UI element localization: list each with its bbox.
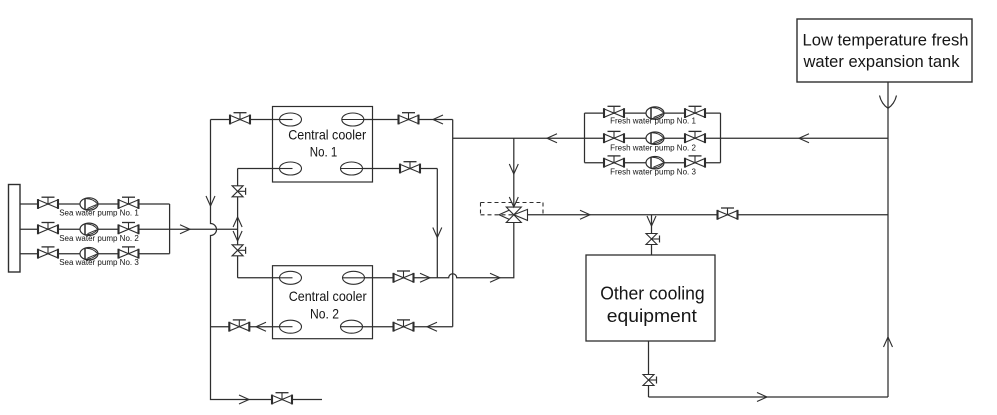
svg-text:Sea water pump No. 1: Sea water pump No. 1 — [59, 209, 139, 218]
svg-text:Low temperature fresh: Low temperature fresh — [803, 31, 969, 49]
svg-text:Fresh water pump No. 3: Fresh water pump No. 3 — [610, 168, 696, 177]
svg-text:Other cooling: Other cooling — [600, 283, 705, 303]
svg-text:Fresh water pump No. 1: Fresh water pump No. 1 — [610, 116, 696, 125]
svg-text:water expansion tank: water expansion tank — [802, 53, 960, 71]
svg-text:Sea water pump No. 2: Sea water pump No. 2 — [59, 234, 139, 243]
svg-text:Fresh water pump No. 2: Fresh water pump No. 2 — [610, 143, 696, 152]
svg-text:No. 2: No. 2 — [310, 305, 339, 321]
svg-text:Sea water pump No. 3: Sea water pump No. 3 — [59, 258, 139, 267]
svg-text:Central cooler: Central cooler — [288, 126, 366, 142]
svg-text:Central cooler: Central cooler — [289, 288, 367, 304]
svg-text:equipment: equipment — [607, 306, 697, 326]
svg-text:No. 1: No. 1 — [310, 144, 338, 160]
